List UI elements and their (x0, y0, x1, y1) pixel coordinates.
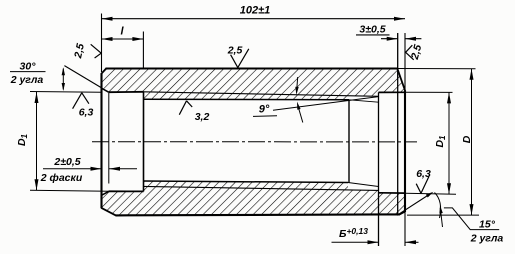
dimension line D1 right (448, 92, 450, 194)
thread minor line bottom (143, 181, 348, 183)
extension line left bore step up (for l) (142, 32, 144, 68)
svg-text:2±0,5: 2±0,5 (53, 156, 80, 168)
svg-text:3±0,5: 3±0,5 (359, 24, 385, 36)
svg-text:9°: 9° (259, 103, 270, 115)
left end face (100, 73, 102, 208)
hatched section: bottom band middle (143, 181, 348, 215)
svg-text:6,3: 6,3 (416, 168, 431, 180)
svg-text:2,5: 2,5 (409, 43, 425, 61)
svg-text:D1: D1 (434, 135, 447, 148)
svg-text:3,2: 3,2 (195, 111, 210, 123)
svg-text:2,5: 2,5 (227, 45, 243, 57)
hatched section: top band left (counterbore wall) (102, 69, 144, 93)
hatched section: top band middle (to thread minor line) (143, 69, 349, 100)
svg-text:D1: D1 (16, 133, 29, 146)
svg-text:30°: 30° (20, 60, 37, 72)
thread minor line top, runout part (349, 100, 379, 102)
chamfer top-left outer corner (101, 68, 106, 74)
left bore chamfer bottom (102, 191, 109, 195)
dimension line 3+-0.5 right tail with arrow (405, 38, 421, 40)
svg-text:2 угла: 2 угла (10, 74, 44, 86)
outer bottom edge of bushing (116, 214, 400, 215)
left counterbore top surface D1 (109, 91, 144, 93)
svg-text:Б+0,13: Б+0,13 (339, 226, 368, 240)
roughness mark 2,5 on outer surface (231, 55, 238, 68)
right bore step edge (vertical) + extension down to B dim (378, 92, 380, 246)
extension line of bore chamfer down (108, 93, 110, 184)
dimension line D1 left (36, 92, 38, 190)
dimension line l (102, 38, 144, 40)
outer top edge of bushing (106, 67, 398, 69)
dimension line B left part with arrow (332, 241, 379, 243)
arrow shaft under arc (440, 208, 442, 227)
left bore chamfer top (2x30deg) (102, 88, 109, 92)
thread minor line bottom, runout part (348, 183, 379, 187)
centre axis line (dash-dot) (92, 141, 417, 143)
thread end edge (vertical) (348, 100, 350, 183)
hatched section: bottom band right end (379, 193, 406, 215)
dimension line 102+-1 (102, 18, 406, 20)
arc of angular dimension 15deg (435, 193, 441, 219)
left bore step edge (vertical across bore) (143, 92, 145, 192)
chamfer leader line 15deg with arrowhead (397, 193, 432, 215)
chamfer leader line 30deg (64, 66, 101, 88)
roughness mark 2,5 on right chamfer (rotated) (406, 45, 413, 52)
chamfer bottom-left outer corner 15deg (101, 208, 116, 216)
chamfer top-right outer corner (397, 68, 405, 91)
svg-text:2 угла: 2 угла (470, 232, 504, 244)
right recess edge vertical (3+-0.5) through part (397, 33, 399, 215)
svg-text:2 фаски: 2 фаски (40, 172, 83, 184)
right counterbore bottom surface (379, 192, 406, 194)
dimension line 2+-0.5 with right arrow to face (43, 168, 102, 170)
extension line outer bottom to the right (407, 214, 479, 216)
svg-text:D: D (461, 135, 473, 143)
hatched section: top band right of thread end (349, 69, 379, 97)
roughness mark 2,5 on left end face (rotated) (91, 44, 102, 53)
label leader shelf to 15deg text (444, 208, 499, 230)
svg-text:6,3: 6,3 (79, 107, 94, 119)
left counterbore bottom surface D1 (109, 190, 144, 192)
right face extension line up to 3 dim and down to B dim (404, 33, 406, 246)
extension line left counterbore top to the left (30, 91, 102, 94)
extension line right counterbore bottom to the right (405, 193, 456, 194)
extension line left face up (101, 14, 103, 73)
thread major line bottom (143, 186, 378, 190)
svg-text:2,5: 2,5 (72, 42, 87, 60)
extension line outer top to the right (398, 68, 476, 70)
dimension line D right (471, 69, 473, 215)
hatched section: bottom band left end (102, 191, 144, 215)
chamfer bottom-right outer corner (399, 212, 405, 215)
arrow up onto thread minor line (298, 106, 303, 123)
dimension line B right tail with arrow (405, 241, 419, 243)
right end face (404, 91, 406, 213)
svg-text:102±1: 102±1 (240, 4, 271, 16)
left-pointing arrow at chamfer extension (109, 168, 137, 170)
double arrow between chamfer line and bore surface (62, 69, 64, 90)
arrow down onto thread major line (297, 77, 298, 92)
hatched section: bottom band right of thread end (348, 190, 379, 215)
roughness mark 6,3 on right counterbore surface (416, 184, 421, 194)
right counterbore top surface (379, 91, 406, 93)
dimension line 3+-0.5 left part with arrow (381, 38, 398, 40)
extension line right counterbore top to the right (405, 91, 453, 93)
thread minor line top (143, 98, 349, 101)
roughness mark 6,3 on left counterbore surface (73, 93, 82, 109)
extension line left counterbore bottom to the left (30, 190, 109, 191)
thread major line top (thin, tapered) (143, 92, 378, 97)
svg-text:l: l (120, 26, 124, 38)
svg-text:15°: 15° (479, 219, 496, 231)
leader line from 9deg to cone end (273, 97, 379, 111)
hatched section: top band right end (counterbore wall with chamfer) (379, 69, 406, 93)
roughness mark 3,2 on thread surface (179, 101, 186, 115)
